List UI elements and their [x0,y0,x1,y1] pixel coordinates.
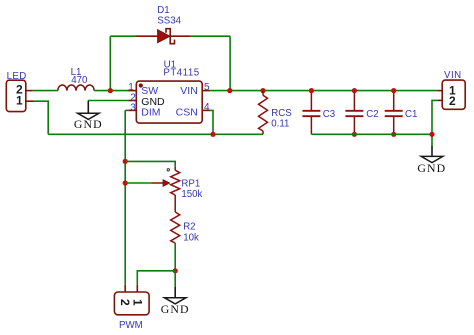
junction C1 bottom [391,132,396,137]
LED pin 1 stub [26,100,33,102]
diode D1 anode lead [136,35,158,37]
ground stem (right) [431,146,433,156]
U1 pin1 marker dot [139,83,143,87]
junction L1/D1 node [108,88,113,93]
resistor R2 zigzag [171,212,180,243]
junction DIM / RP1 top node [123,159,128,164]
svg-text:2: 2 [449,94,456,108]
VIN pin 2 stub [437,99,442,101]
svg-text:LED: LED [7,71,27,82]
ground stem (bottom) [174,271,176,287]
potentiometer RP1 wiper arrowhead [163,180,170,187]
junction C1 top [391,88,396,93]
wire ground rail right [311,133,432,135]
wire U1 GND pin to ground [88,100,128,102]
wire sense rail [48,133,263,135]
junction CSN node [210,132,215,137]
VIN pin 1 stub [437,90,442,92]
capacitor C3 top lead [310,91,312,110]
capacitor C1 bottom lead [393,117,395,134]
svg-text:GND: GND [161,302,190,316]
connector PWM box [114,292,149,315]
wire top loop top-right horizontal [191,35,230,37]
junction VIN ground node [429,132,434,137]
junction C2 bottom [352,132,357,137]
svg-text:CSN: CSN [176,107,198,119]
capacitor C3 plates [302,111,320,116]
wire top loop left vertical [109,36,111,90]
svg-text:150k: 150k [181,189,202,200]
svg-text:3: 3 [130,103,136,114]
svg-text:2: 2 [130,92,136,103]
U1 pin 4 stub [202,109,210,111]
capacitor C1 top lead [393,91,395,110]
svg-text:1: 1 [16,93,23,107]
svg-text:VIN: VIN [180,85,198,97]
svg-text:2: 2 [118,299,132,306]
capacitor C2 plates [345,111,363,116]
potentiometer RP1 zigzag [171,170,180,195]
junction DIM / wiper node [123,180,128,185]
connector VIN box [442,80,465,109]
wire U1 CSN to sense rail [210,110,213,134]
wire VIN pin2 down [432,100,437,146]
wire top loop top-left horizontal [110,35,135,37]
diode D1 schottky cathode bar [166,29,175,44]
svg-text:1: 1 [130,299,144,306]
diode D1 triangle [158,30,170,43]
potentiometer RP1 top lead [174,167,176,170]
wire RP1 bottom to R2 top [174,195,176,212]
U1 pin 1 stub [128,90,136,92]
U1 pin 5 stub [202,90,210,92]
PWM pin 1 stub [136,285,138,292]
U1 pin 3 stub [128,109,136,111]
resistor RCS zigzag [259,95,268,131]
capacitor C2 bottom lead [353,117,355,134]
wire DIM vertical to PWM [124,110,126,284]
potentiometer RP1 wiper arrow line [152,182,164,184]
svg-text:RP1: RP1 [181,179,200,190]
connector LED box [6,80,26,111]
junction C2 top [352,88,357,93]
resistor RCS top lead [262,91,264,96]
wire PWM pin1 up and right [137,271,175,285]
inductor L1 [58,85,94,91]
ground symbol (bottom) [164,298,186,304]
diode D1 cathode lead [170,35,191,37]
wire L1 to U1 pin 1 [94,90,129,92]
svg-text:4: 4 [204,102,210,113]
svg-text:PWM: PWM [119,320,143,331]
wire U1 DIM pin horizontal [125,109,128,111]
wire LED pin2 to L1 [33,90,58,92]
resistor RCS bottom lead [262,131,264,134]
junction RCS top [260,88,265,93]
U1 pin 2 stub [128,100,136,102]
op-amp U1 box PT4115 [136,81,202,123]
svg-text:GND: GND [74,117,103,131]
LED pin 2 stub [26,90,33,92]
junction diode/VIN rail [227,88,232,93]
ground symbol (right) [421,156,443,162]
svg-text:GND: GND [417,161,446,175]
svg-text:C1: C1 [405,109,417,120]
svg-text:PT4115: PT4115 [163,68,199,79]
svg-text:C2: C2 [366,109,378,120]
junction C3 top [309,88,314,93]
wire to RP1 top [125,161,175,166]
svg-text:SS34: SS34 [157,15,181,26]
wire LED pin1 down [33,101,48,134]
svg-text:0.11: 0.11 [271,118,289,129]
svg-text:C3: C3 [323,109,335,120]
PWM pin 2 stub [124,285,126,292]
wire top loop right vertical [229,36,231,90]
ground stem (left) [87,101,89,114]
svg-text:R2: R2 [183,222,195,233]
svg-text:10k: 10k [183,233,199,244]
junction R2/PWM/ground node [173,268,178,273]
wire VIN rail [210,90,437,92]
potentiometer RP1 marker circle [167,169,169,171]
wire R2 bottom [174,243,176,271]
capacitor C2 top lead [353,91,355,110]
capacitor C3 bottom lead [310,117,312,134]
svg-text:470: 470 [71,75,88,86]
svg-text:DIM: DIM [141,107,160,119]
ground symbol (left) [78,113,99,119]
wire to RP1 wiper [125,182,151,184]
capacitor C1 plates [385,111,403,116]
svg-text:VIN: VIN [444,70,462,81]
svg-text:5: 5 [204,82,210,93]
